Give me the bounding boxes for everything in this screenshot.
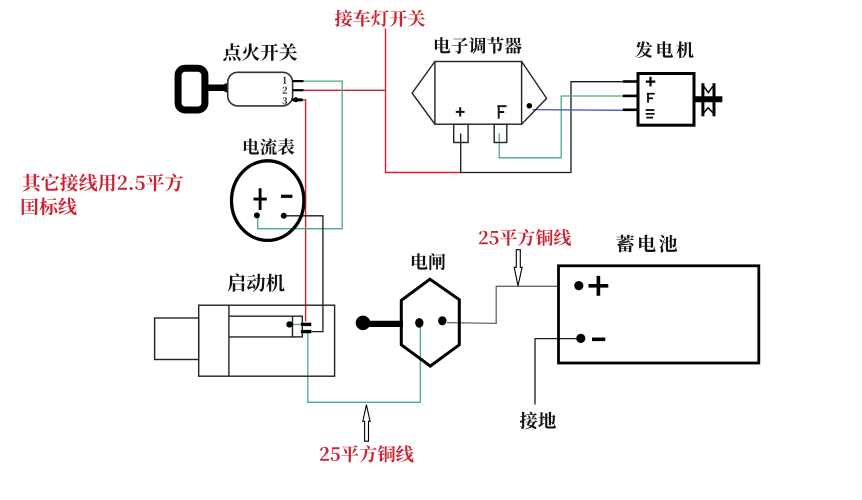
wire: black regulator + leg to generator + terminal — [461, 82, 624, 173]
regulator case dot — [527, 103, 533, 109]
wire: black ammeter - terminal to starter lower stub — [287, 216, 323, 332]
switch handle bar — [369, 321, 403, 327]
label 点火开关 (ignition switch) — [223, 43, 297, 61]
pin label 3 — [282, 97, 287, 104]
label 25平方铜线 top — [479, 229, 571, 246]
ammeter + mark — [254, 188, 267, 210]
wire: red ignition pin3 down to starter terminal — [302, 100, 306, 322]
ignition switch key bow — [178, 68, 205, 110]
regulator left point — [412, 62, 435, 125]
label 接车灯开关 (to headlight switch) — [335, 10, 425, 27]
ammeter + terminal dot — [254, 212, 260, 218]
label 其它接线用2.5平方 line1 — [22, 174, 183, 192]
wire: blue regulator case dot to generator ground terminal — [533, 109, 624, 112]
starter lower terminal stub — [301, 330, 311, 333]
label 国标线 line2 — [22, 198, 77, 216]
generator + label — [646, 77, 656, 87]
starter body divider — [228, 305, 230, 376]
switch handle knob — [356, 316, 371, 331]
starter nose rectangle — [155, 318, 199, 360]
wire: green ignition pin1 to ammeter + terminal — [258, 81, 343, 229]
ignition switch key stem — [207, 85, 224, 92]
callout arrow up (25平方铜线 bottom) — [363, 405, 370, 441]
ignition pin3 stub with blob — [293, 98, 301, 101]
ignition pin1 stub — [293, 80, 304, 82]
ammeter body — [232, 161, 304, 241]
generator F terminal stub — [623, 95, 638, 98]
callout arrow down (25平方铜线 top) — [514, 250, 522, 286]
wire: green starter lower stub to switch left terminal — [308, 328, 421, 403]
generator + terminal stub — [623, 80, 638, 83]
starter armature lines — [229, 316, 293, 337]
regulator F terminal leg — [494, 124, 507, 142]
battery - terminal dot — [576, 334, 585, 343]
generator F label — [647, 94, 655, 103]
label 发电机 (generator) — [636, 41, 694, 58]
starter upper terminal stub — [301, 323, 311, 326]
generator ground label — [646, 110, 655, 118]
label 电子调节器 (electronic regulator) — [435, 37, 522, 54]
starter solenoid box — [293, 316, 303, 337]
wire: gray switch right terminal to battery + — [447, 286, 559, 323]
ignition switch body — [228, 72, 293, 106]
regulator + terminal leg — [454, 124, 468, 142]
generator shaft — [694, 96, 722, 102]
pulley v-grooves — [704, 86, 713, 112]
wire: red branch ignition pin2 to vertical lead — [303, 89, 386, 91]
regulator F label — [497, 106, 506, 118]
regulator right point — [522, 62, 547, 125]
wire: black battery - to ground lead — [535, 339, 578, 405]
battery body — [559, 266, 759, 363]
ammeter - terminal dot — [281, 213, 287, 219]
starter terminal dot — [286, 321, 292, 327]
regulator + label — [456, 107, 465, 116]
starter main body rectangle — [199, 305, 335, 376]
ignition pin2 stub — [293, 89, 304, 91]
label 电闸 (switch) — [412, 253, 445, 270]
label 蓄电池 (battery) — [616, 235, 677, 253]
pulley flanges — [701, 83, 704, 116]
generator ground terminal stub — [623, 109, 638, 112]
battery - sign — [592, 337, 605, 341]
label 启动机 (starter) — [228, 273, 285, 291]
ammeter - mark — [281, 195, 292, 198]
wire: green starter dot to stub — [293, 324, 302, 326]
pin label 2 — [283, 87, 288, 94]
battery + sign — [589, 276, 609, 296]
regulator body rectangle — [435, 62, 522, 125]
generator body — [638, 74, 694, 126]
label 接地 (ground) — [520, 412, 556, 429]
battery + terminal dot — [574, 281, 583, 290]
wire: red lead from headlight-switch label down to junction — [386, 29, 461, 173]
pin label 1 — [283, 77, 287, 84]
switch right terminal dot — [438, 316, 446, 325]
switch hexagon body — [401, 279, 459, 366]
wire: green regulator F leg to generator F terminal — [499, 96, 623, 158]
label 25平方铜线 bottom — [320, 445, 414, 462]
switch left terminal dot — [415, 318, 423, 328]
label 电流表 (ammeter) — [244, 138, 294, 155]
